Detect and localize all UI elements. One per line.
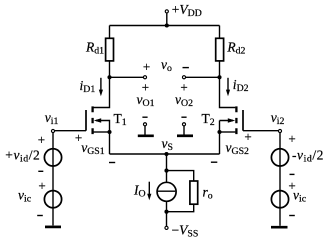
- junction vS: [164, 152, 168, 156]
- svg-text:+: +: [38, 178, 45, 193]
- source vic right: [271, 191, 288, 208]
- minus left vid2: [38, 170, 43, 172]
- wire vS rail: [110, 153, 220, 155]
- wire vi2 to source vid2: [279, 133, 281, 226]
- node -VSS terminal: [165, 226, 168, 229]
- wire T2 gate lead: [243, 130, 278, 132]
- ground right: [271, 226, 288, 229]
- svg-text:+: +: [142, 80, 149, 95]
- ground vO1: [144, 126, 146, 135]
- transistor T2 body arrow: [220, 121, 234, 133]
- wire vi1 to source vid2: [52, 133, 54, 226]
- transistor T2 channel segments: [235, 106, 237, 134]
- minus right vic: [289, 215, 295, 217]
- resistor Rd1: [106, 38, 114, 61]
- svg-text:+: +: [180, 80, 187, 95]
- transistor T1 body arrow: [96, 121, 110, 133]
- junction ro top: [164, 169, 168, 173]
- minus above ground vO1: [142, 116, 147, 118]
- svg-text:+: +: [38, 132, 45, 147]
- ground vO2 terminal: [182, 123, 185, 126]
- wire T1 gate lead: [55, 130, 86, 132]
- ground left: [45, 226, 61, 229]
- minus above ground vO2: [181, 116, 186, 118]
- wire current source to VSS: [166, 202, 168, 227]
- wire Rd1 to T1 drain: [94, 61, 110, 108]
- wire Rd2 to T2 drain: [220, 61, 236, 108]
- wire ro bottom: [167, 204, 194, 212]
- source vic left: [44, 191, 61, 208]
- junction drain node left: [107, 75, 111, 79]
- svg-text:+: +: [244, 129, 251, 144]
- junction T1 source: [107, 130, 111, 134]
- transistor T1 gate bar: [85, 110, 87, 131]
- wire rail to Rd1: [109, 26, 111, 39]
- junction VDD rail: [165, 23, 169, 27]
- transistor T2 gate bar: [242, 110, 244, 131]
- minus vGS1: [109, 162, 115, 164]
- resistor Rd2: [216, 38, 224, 61]
- wire left output: [110, 76, 144, 78]
- node vi2 terminal: [278, 129, 281, 132]
- source vid2 right: [271, 149, 288, 166]
- wire T2 source to vS rail: [219, 132, 221, 154]
- wire right output: [186, 76, 220, 78]
- junction ro bottom: [164, 210, 168, 214]
- ground vO2: [183, 126, 185, 135]
- transistor T2 source lead: [220, 131, 236, 133]
- wire T1 source to vS rail: [109, 132, 111, 154]
- junction drain node right: [217, 75, 221, 79]
- node +VDD terminal: [165, 10, 168, 13]
- minus left vic: [37, 215, 43, 217]
- minus vGS2: [211, 161, 217, 163]
- arrow IO: [148, 182, 150, 195]
- resistor ro: [190, 181, 198, 204]
- wire to ro top: [167, 171, 194, 181]
- svg-text:+: +: [288, 131, 295, 146]
- junction T2 source: [217, 130, 221, 134]
- svg-text:+: +: [143, 59, 150, 74]
- node vO1 terminal: [143, 76, 146, 79]
- transistor T1 source lead: [94, 131, 110, 133]
- transistor T1 channel segments: [91, 106, 93, 134]
- node vi1 terminal: [51, 129, 54, 132]
- node vO2 terminal: [182, 76, 185, 79]
- wire VDD stub: [166, 13, 168, 25]
- arrow iD2: [227, 78, 229, 90]
- wire rail to Rd2: [219, 26, 221, 39]
- minus right vid2: [290, 173, 295, 175]
- source vid2 left: [44, 149, 61, 166]
- minus vo: [183, 67, 189, 69]
- current source IO: [157, 182, 176, 201]
- arrow iD1: [100, 78, 102, 90]
- wire top rail: [110, 25, 220, 27]
- ground vO1 terminal: [143, 123, 146, 126]
- wire vS to current source: [166, 154, 168, 182]
